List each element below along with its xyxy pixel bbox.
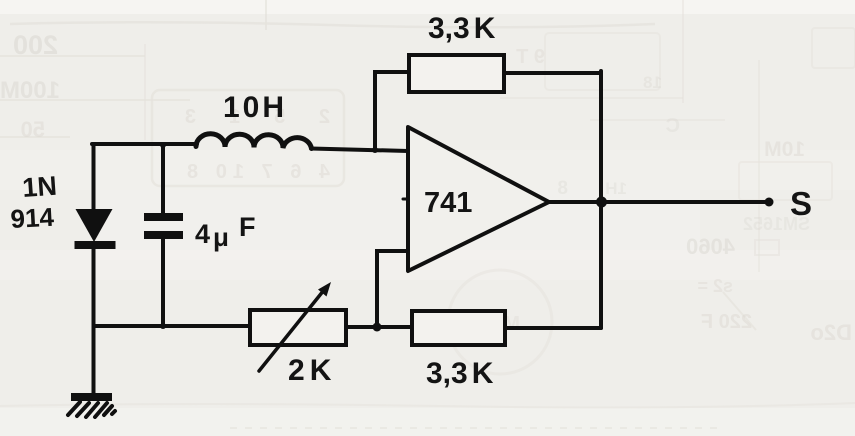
node : feedback tap junction bbox=[372, 147, 378, 153]
svg-text:1H: 1H bbox=[605, 179, 627, 198]
faint mirrored text bleed-through bbox=[0, 30, 852, 345]
ground symbol bbox=[71, 393, 112, 401]
svg-text:D2o: D2o bbox=[810, 320, 852, 345]
potentiometer R2 arrow bbox=[259, 290, 324, 371]
wire : op-amp output to S bbox=[549, 200, 769, 204]
pin nub on op-amp left edge bbox=[403, 198, 408, 201]
svg-text:914: 914 bbox=[10, 202, 55, 234]
svg-text:S: S bbox=[790, 185, 812, 222]
svg-text:4: 4 bbox=[195, 219, 210, 249]
svg-text:220 F: 220 F bbox=[701, 311, 752, 333]
node : output junction bbox=[596, 197, 607, 208]
svg-text:50: 50 bbox=[21, 117, 45, 142]
node : S terminal dot bbox=[765, 198, 774, 207]
svg-text:C: C bbox=[666, 115, 680, 137]
capacitor C1 plates bbox=[144, 213, 183, 221]
svg-text:200: 200 bbox=[13, 30, 58, 60]
diode D1 bottom lead bbox=[92, 248, 96, 394]
svg-text:1N: 1N bbox=[21, 171, 58, 203]
svg-text:10M: 10M bbox=[764, 138, 805, 161]
capacitor C1 top lead bbox=[161, 146, 165, 213]
wire : R1 right to output column bbox=[504, 71, 601, 75]
wire : feedback riser to top resistor bbox=[375, 72, 410, 150]
resistor R1 3,3K (top feedback) bbox=[409, 55, 504, 92]
node : non-inverting tap junction bbox=[373, 323, 382, 332]
svg-text:18: 18 bbox=[643, 73, 662, 92]
svg-text:8: 8 bbox=[557, 178, 568, 199]
capacitor C1 bottom lead bbox=[161, 239, 165, 326]
node : capacitor bottom junction bbox=[160, 323, 166, 329]
svg-text:2K: 2K bbox=[288, 354, 332, 387]
svg-text:741: 741 bbox=[424, 187, 472, 219]
svg-text:F: F bbox=[239, 212, 256, 242]
svg-text:s2 =: s2 = bbox=[697, 276, 733, 296]
wire : output column vertical bbox=[599, 71, 603, 328]
svg-text:3,3K: 3,3K bbox=[428, 12, 496, 45]
wire : inductor to op-amp inverting input bbox=[311, 149, 408, 152]
wire : non-inverting input riser bbox=[377, 251, 408, 328]
svg-text:3,3K: 3,3K bbox=[426, 357, 494, 390]
op-amp U1 741 bbox=[408, 127, 549, 271]
svg-text:4060: 4060 bbox=[686, 234, 735, 259]
potentiometer R2 2K (box) bbox=[250, 310, 346, 345]
svg-text:10H: 10H bbox=[223, 91, 287, 124]
diode D1 1N914 top lead bbox=[92, 144, 96, 209]
resistor R3 3,3K (bottom) bbox=[412, 311, 505, 345]
svg-text:4 6 7 10 8: 4 6 7 10 8 bbox=[181, 161, 330, 183]
wire : R3 right to output column bbox=[505, 326, 601, 330]
node : cap top junction bbox=[160, 142, 166, 148]
svg-text:100M: 100M bbox=[0, 77, 60, 104]
svg-text:9 T: 9 T bbox=[516, 46, 545, 68]
wire : 2K to R3 bbox=[346, 325, 413, 329]
diode D1 body bbox=[76, 209, 113, 242]
inductor L1 10H (coil) bbox=[196, 134, 312, 149]
wire : bottom rail diode to 2K pot bbox=[94, 324, 253, 328]
svg-text:μ: μ bbox=[213, 222, 229, 252]
wire : top node from diode to inductor bbox=[92, 142, 197, 146]
